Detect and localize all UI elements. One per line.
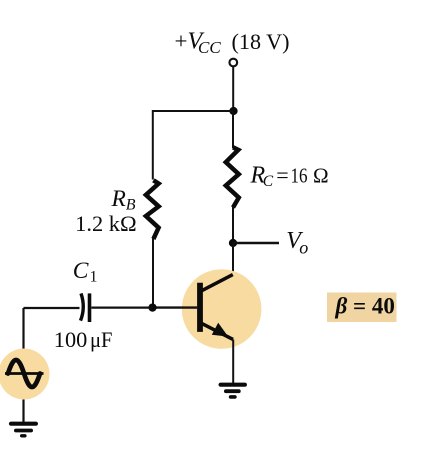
wire collector vertical [232,243,234,276]
svg-text:μF: μF [90,327,113,352]
svg-text:100: 100 [54,327,88,352]
svg-text:β = 40: β = 40 [335,294,395,319]
wire junction to RB branch with corner [153,111,234,180]
wire Vo stub [233,242,279,244]
svg-text:CC: CC [198,38,221,57]
ground emitter [221,385,245,397]
node base junction [148,303,156,311]
wire RB bottom lead [152,239,154,308]
node supply junction [229,107,237,115]
wire RC top lead [232,111,234,148]
svg-text:C: C [73,258,89,284]
supply terminal circle [229,59,237,67]
wire base [153,306,198,308]
svg-text:1: 1 [90,269,98,286]
wire capacitor to base junction [91,307,152,309]
capacitor C1 [81,293,90,322]
svg-text:Ω: Ω [313,164,329,188]
svg-text:16: 16 [291,164,308,188]
beta box [327,293,397,323]
svg-text:o: o [299,238,308,258]
resistor RB [146,180,159,239]
transistor Q1 [182,269,262,349]
node collector Vo [229,239,237,247]
wire source bottom lead [22,400,24,423]
wire RC bottom lead [232,207,234,243]
wire input left of capacitor [24,307,80,309]
wire supply vertical [232,67,234,112]
svg-text:(18 V): (18 V) [232,29,290,54]
wire source top lead [22,308,24,349]
wire emitter vertical [232,340,234,385]
svg-text:R: R [111,186,126,212]
source VS (AC sine) [0,349,50,400]
resistor RC [226,147,239,207]
svg-text:C: C [263,173,274,190]
ground source [11,424,36,436]
svg-text:=: = [276,163,288,188]
svg-text:1.2 kΩ: 1.2 kΩ [75,211,137,236]
